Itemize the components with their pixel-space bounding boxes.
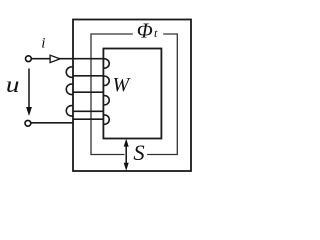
wire front pass 2: [73, 75, 104, 77]
voltage arrow: [26, 69, 32, 117]
coil loop R2: [103, 76, 109, 85]
terminal top: [26, 56, 32, 62]
svg-text:W: W: [113, 74, 132, 96]
wire bottom lead: [31, 122, 73, 124]
coil loop L3: [66, 106, 73, 116]
winding left-side loops: [66, 67, 73, 116]
wire top lead: [31, 58, 103, 60]
svg-text:u: u: [6, 73, 20, 98]
coil loop R4: [103, 115, 109, 124]
terminal bottom: [25, 120, 31, 126]
winding W : front pass wires: [31, 59, 104, 123]
coil loop L2: [66, 84, 73, 94]
coil loop R1: [103, 59, 109, 68]
wire front pass 4: [73, 110, 104, 112]
current direction arrow (open): [50, 55, 60, 62]
cross-section arrow (double-headed, vertical): [124, 139, 129, 171]
svg-text:S: S: [133, 140, 144, 165]
svg-text:i: i: [41, 36, 45, 52]
winding right-side loops: [103, 59, 109, 124]
wire front pass 3: [73, 91, 104, 93]
wire front pass 5: [73, 118, 104, 120]
coil loop R3: [103, 96, 109, 105]
coil loop L1: [66, 67, 73, 77]
core outer rectangle: [73, 20, 191, 172]
svg-text:Φ: Φ: [137, 19, 153, 43]
core inner window rectangle: [103, 49, 161, 139]
flux path line (gray rectangle with gaps for labels): [91, 34, 177, 155]
